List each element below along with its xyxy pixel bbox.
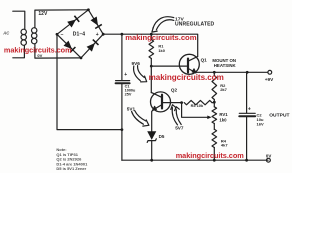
resistor R3 10k bbox=[184, 100, 212, 104]
node R1 bottom / Q1 base junction bbox=[150, 65, 153, 68]
transistor Q2 2N2926 bbox=[151, 92, 171, 112]
note text block bbox=[56, 147, 88, 171]
svg-text:OUTPUT: OUTPUT bbox=[269, 113, 289, 119]
svg-text:makingcircuits.com: makingcircuits.com bbox=[176, 151, 245, 160]
svg-text:D5 is 5V1 Zener: D5 is 5V1 Zener bbox=[56, 166, 86, 171]
svg-text:4k7: 4k7 bbox=[221, 142, 228, 147]
terminal +9V bbox=[268, 70, 272, 74]
transistor Q1 TIP31 bbox=[179, 54, 199, 74]
svg-text:1k0: 1k0 bbox=[219, 117, 227, 122]
svg-text:D5: D5 bbox=[159, 134, 165, 139]
svg-text:RV1: RV1 bbox=[219, 112, 228, 117]
svg-text:9V6: 9V6 bbox=[132, 61, 141, 66]
annotation arrow 9V6 bbox=[134, 66, 141, 81]
svg-text:+9V: +9V bbox=[265, 77, 274, 82]
svg-text:+: + bbox=[248, 107, 251, 113]
wire Q1 base bbox=[151, 65, 187, 67]
svg-text:Q2: Q2 bbox=[171, 87, 178, 92]
node C2 top junction bbox=[246, 71, 249, 74]
wire secondary top to bridge top vertex bbox=[35, 10, 89, 28]
node bridge left vertex (-) bbox=[56, 33, 59, 36]
diode D4 bottom-right edge bbox=[87, 43, 95, 52]
node R2 top junction bbox=[213, 71, 216, 74]
diode D2 top-right edge bbox=[91, 17, 99, 26]
bridge rectifier D1-4 diamond wires bbox=[57, 10, 103, 58]
svg-text:UNREGULATED: UNREGULATED bbox=[175, 22, 215, 28]
transformer T1 secondary winding bbox=[32, 28, 37, 44]
wire Q2 base to R3 junction bbox=[162, 102, 182, 104]
diode D1 top-left edge bbox=[67, 20, 76, 28]
diode D3 bottom-left edge bbox=[64, 41, 73, 49]
svg-text:makingcircuits.com: makingcircuits.com bbox=[4, 46, 72, 55]
node pot top junction bbox=[213, 101, 216, 104]
svg-text:D1–4: D1–4 bbox=[73, 31, 86, 37]
resistor R1 1k0 bbox=[149, 40, 154, 59]
svg-text:Q1: Q1 bbox=[201, 57, 208, 62]
annotation arrow 5V7 bbox=[172, 108, 177, 125]
svg-text:makingcircuits.com: makingcircuits.com bbox=[149, 73, 224, 82]
annotation arrow 17V bbox=[153, 17, 174, 29]
svg-text:12V: 12V bbox=[38, 11, 48, 17]
wire Q2 collector up to junction bbox=[150, 66, 152, 93]
wire secondary bottom to bridge bottom vertex bbox=[35, 44, 81, 58]
svg-text:R3 10k: R3 10k bbox=[191, 103, 204, 108]
annotation arrow 5V1 bbox=[132, 112, 144, 125]
node C1 top junction bbox=[121, 33, 124, 36]
wire AC input bottom lead bbox=[13, 45, 25, 58]
transformer T1 primary winding bbox=[21, 29, 26, 45]
wire +17V rail from bridge to Q1 collector corner bbox=[103, 34, 198, 56]
svg-text:+: + bbox=[124, 72, 127, 78]
svg-text:+: + bbox=[96, 32, 99, 38]
svg-text:25V: 25V bbox=[125, 93, 132, 97]
node bridge top vertex bbox=[87, 8, 90, 11]
node C2 bottom junction bbox=[245, 159, 248, 162]
capacitor C1 1000u 25V bbox=[116, 34, 130, 129]
node C1 bottom junction bbox=[121, 128, 124, 131]
wire 0V drop from bridge left vertex bbox=[57, 34, 122, 129]
wire bottom 0V rail bbox=[122, 159, 268, 161]
resistor R4 4k7 bbox=[212, 129, 217, 147]
svg-text:−: − bbox=[61, 32, 64, 38]
svg-text:0V: 0V bbox=[266, 154, 271, 159]
wire AC input top lead bbox=[13, 11, 25, 29]
potentiometer RV1 1k0 bbox=[212, 107, 217, 124]
resistor R2 2k7 bbox=[212, 76, 217, 100]
node D5 bottom junction bbox=[150, 159, 153, 162]
node bridge bottom vertex bbox=[80, 57, 83, 60]
wiper wire of RV1 bbox=[182, 103, 209, 118]
terminal 0V bbox=[267, 158, 271, 162]
node bridge right vertex (+) bbox=[102, 33, 105, 36]
wire output rail from Q1 emitter bbox=[196, 71, 268, 74]
svg-text:2k7: 2k7 bbox=[220, 87, 227, 92]
svg-text:1k0: 1k0 bbox=[158, 48, 165, 53]
wire 0V down to bottom rail bbox=[121, 130, 123, 161]
node Q2 base junction bbox=[180, 101, 183, 104]
node R4 bottom junction bbox=[213, 159, 216, 162]
svg-text:16V: 16V bbox=[257, 122, 264, 127]
svg-text:HEATSINK: HEATSINK bbox=[214, 63, 237, 68]
svg-text:AC: AC bbox=[2, 31, 10, 36]
zener diode D5 5V1 bbox=[147, 131, 156, 140]
node R1 top junction bbox=[150, 33, 153, 36]
svg-text:makingcircuits.com: makingcircuits.com bbox=[125, 33, 197, 42]
wire Q2 emitter down to D5 bbox=[152, 110, 153, 131]
svg-text:5V7: 5V7 bbox=[175, 126, 184, 131]
capacitor C2 10u 16V bbox=[239, 72, 255, 160]
